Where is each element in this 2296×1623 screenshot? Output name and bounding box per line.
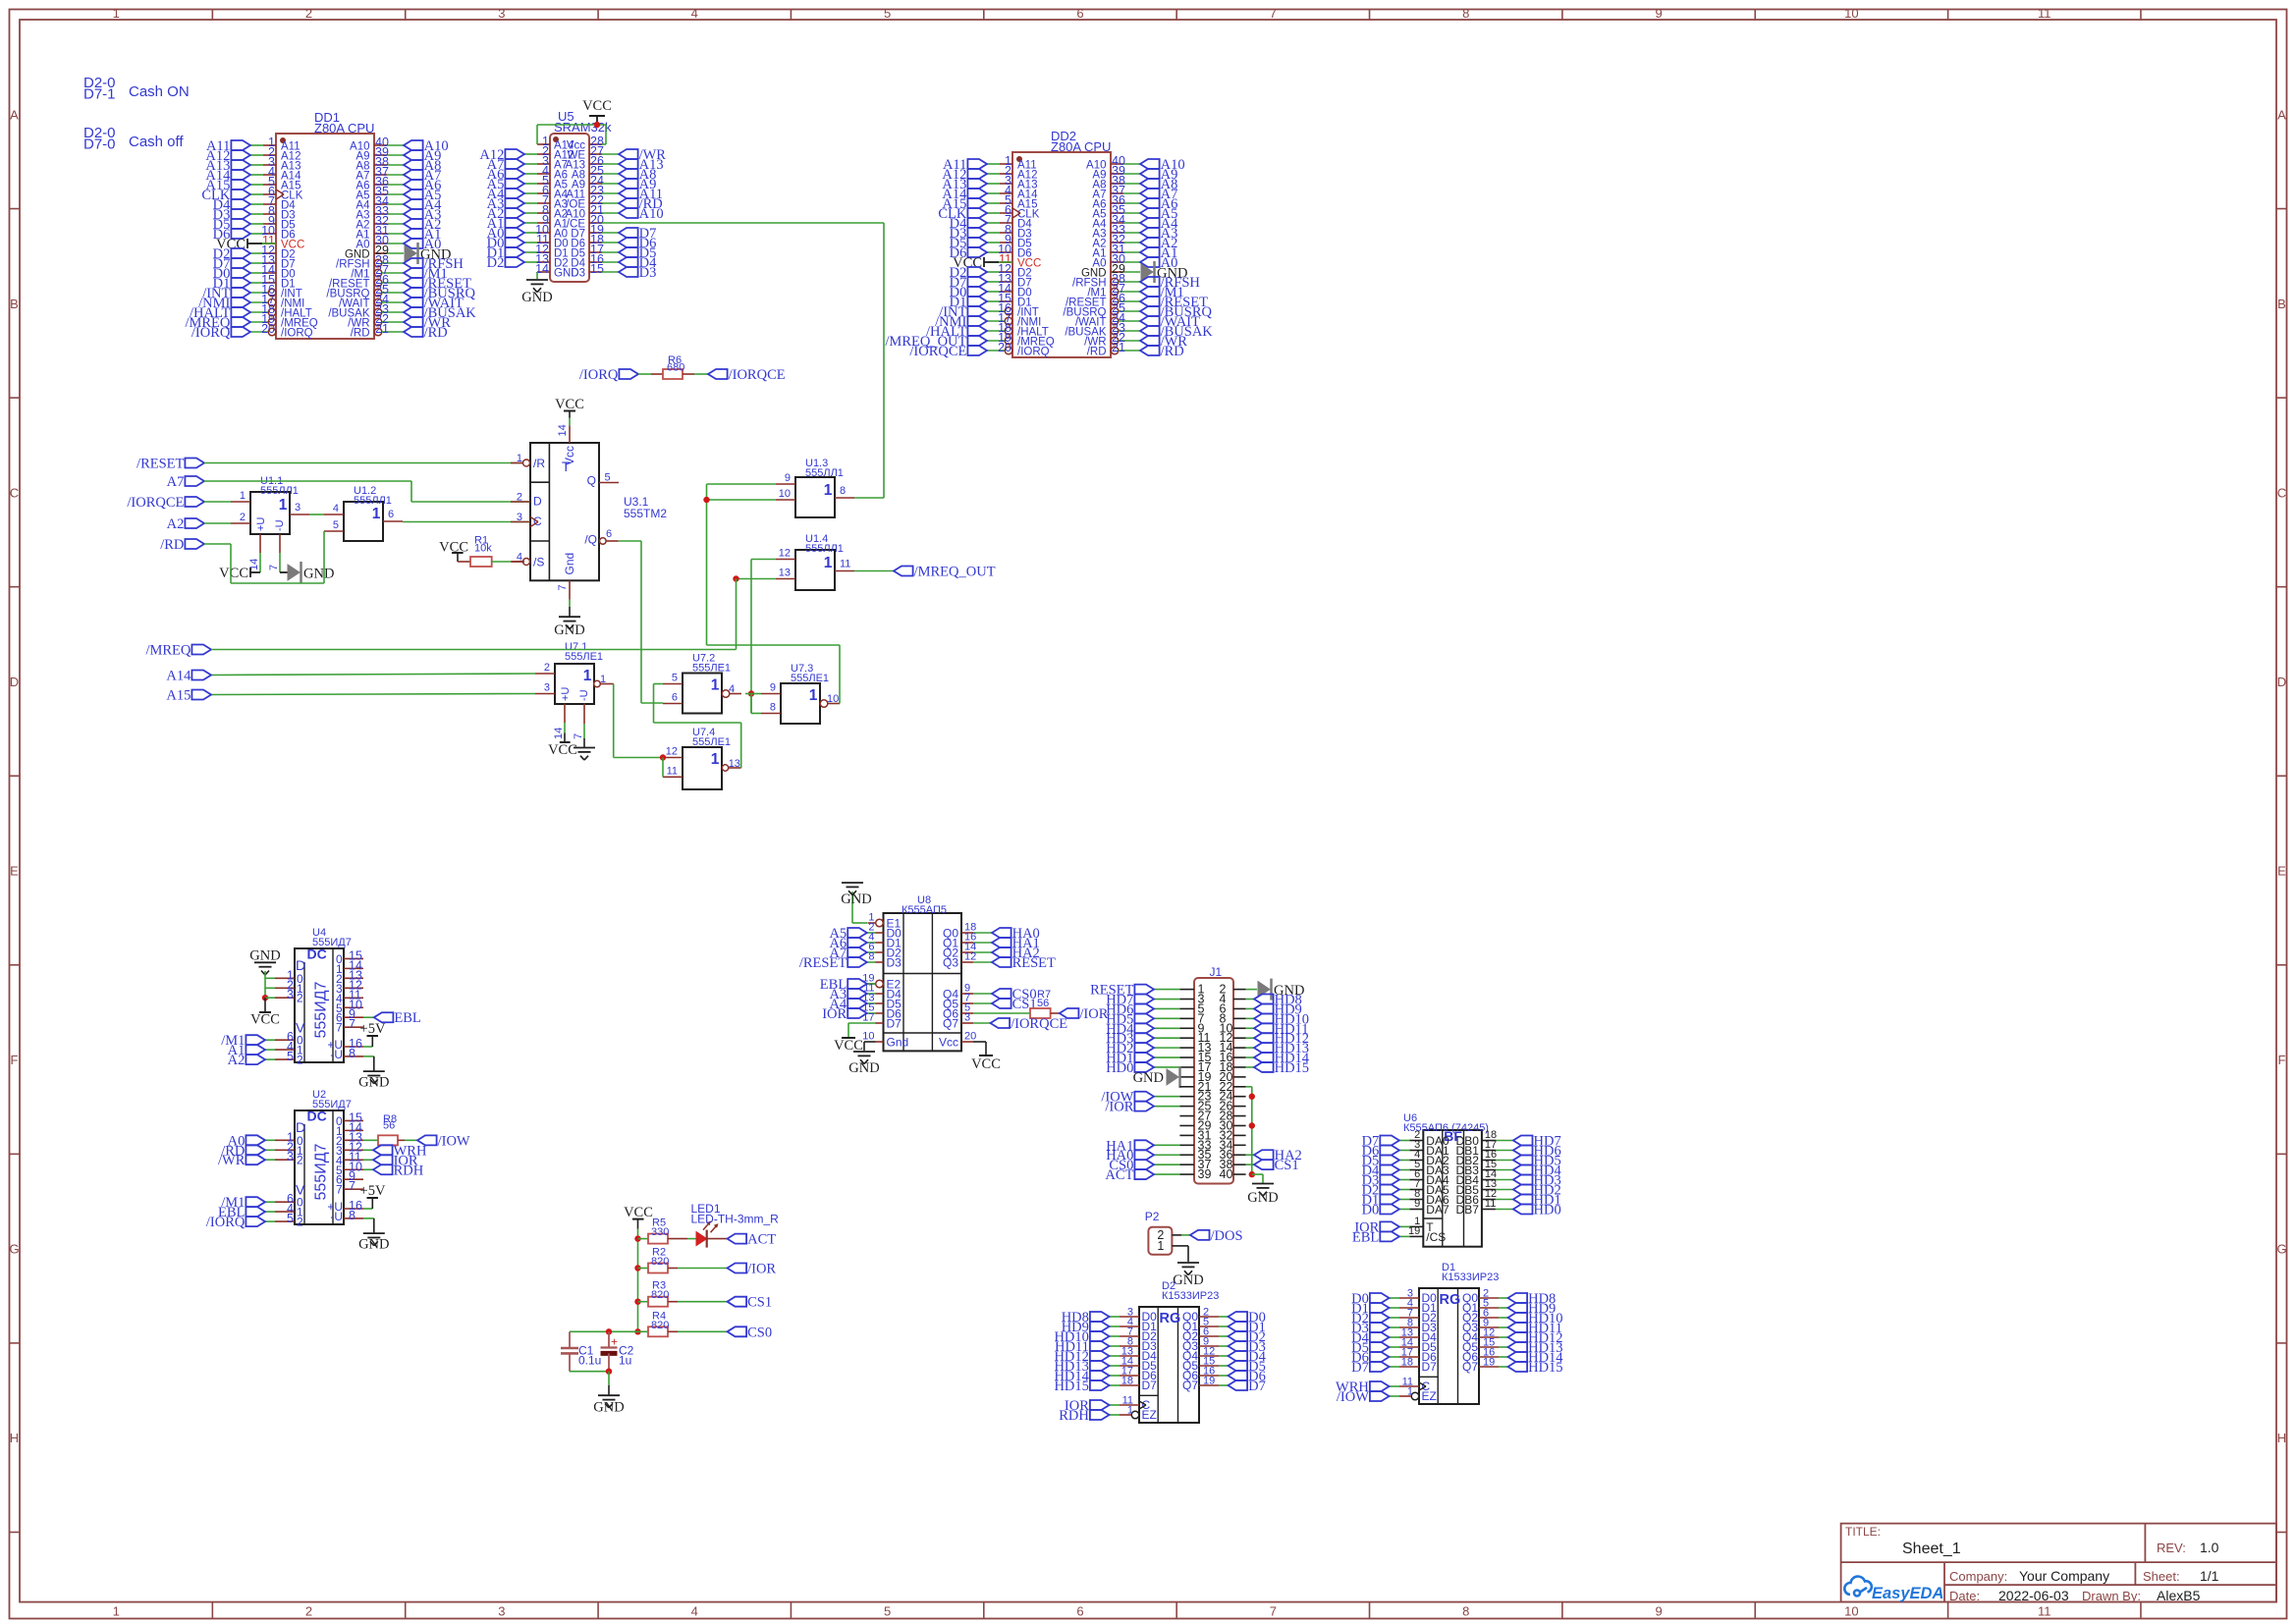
svg-text:B: B [10, 297, 19, 311]
svg-text:/RD: /RD [1161, 344, 1184, 359]
svg-text:555ЛЛ1: 555ЛЛ1 [805, 467, 844, 479]
svg-text:555ЛЛ1: 555ЛЛ1 [260, 485, 299, 497]
svg-text:EZ: EZ [1422, 1389, 1437, 1403]
svg-text:8: 8 [1462, 6, 1469, 21]
svg-text:555ЛЛ1: 555ЛЛ1 [805, 543, 844, 555]
svg-text:/R: /R [533, 457, 545, 470]
svg-text:39: 39 [1198, 1167, 1212, 1181]
svg-text:/RESET: /RESET [799, 955, 847, 971]
svg-text:DC: DC [307, 947, 327, 962]
svg-text:5: 5 [287, 1050, 294, 1063]
svg-text:4: 4 [729, 683, 735, 695]
svg-text:9: 9 [770, 682, 776, 694]
svg-text:К1533ИР23: К1533ИР23 [1442, 1271, 1499, 1283]
svg-text:1: 1 [583, 668, 592, 684]
svg-text:7: 7 [1270, 1604, 1277, 1619]
svg-text:5: 5 [605, 472, 611, 484]
svg-text:H: H [2277, 1431, 2286, 1445]
svg-text:1: 1 [824, 482, 833, 499]
svg-text:7: 7 [268, 565, 280, 570]
svg-text:E: E [2277, 864, 2286, 879]
svg-text:HD0: HD0 [1106, 1060, 1133, 1076]
svg-text:К1533ИР23: К1533ИР23 [1162, 1290, 1219, 1302]
svg-text:DB7: DB7 [1456, 1203, 1480, 1217]
svg-text:VCC: VCC [548, 742, 577, 758]
svg-text:CS1: CS1 [1275, 1158, 1299, 1173]
svg-text:10k: 10k [474, 542, 492, 554]
svg-text:HD0: HD0 [1534, 1203, 1561, 1218]
svg-text:A2: A2 [167, 516, 185, 532]
svg-text:10: 10 [1844, 6, 1858, 21]
svg-text:10: 10 [827, 693, 839, 705]
svg-text:ACT: ACT [747, 1232, 776, 1248]
svg-text:1: 1 [113, 1604, 120, 1619]
svg-text:13: 13 [729, 758, 740, 770]
svg-text:/IORQCE: /IORQCE [1011, 1016, 1067, 1032]
svg-text:56: 56 [1037, 998, 1049, 1009]
svg-text:Q: Q [587, 474, 596, 488]
svg-text:820: 820 [651, 1256, 669, 1268]
svg-text:8: 8 [1462, 1604, 1469, 1619]
svg-text:HD15: HD15 [1528, 1360, 1562, 1376]
svg-text:2: 2 [297, 1154, 303, 1167]
svg-text:D7: D7 [887, 1017, 902, 1031]
svg-text:10: 10 [779, 488, 791, 500]
svg-text:EasyEDA: EasyEDA [1872, 1585, 1943, 1602]
svg-text:0.1u: 0.1u [578, 1354, 601, 1368]
svg-text:11: 11 [2038, 6, 2051, 21]
svg-text:+5V: +5V [360, 1183, 386, 1199]
svg-text:2: 2 [544, 662, 550, 674]
svg-text:21: 21 [375, 322, 389, 336]
svg-text:+5V: +5V [360, 1021, 386, 1037]
svg-text:GND: GND [841, 892, 871, 907]
svg-text:/IORQ: /IORQ [206, 1215, 246, 1230]
svg-text:D0: D0 [1362, 1203, 1380, 1218]
svg-text:7: 7 [336, 1021, 343, 1035]
svg-text:2: 2 [305, 1604, 312, 1619]
svg-text:A15: A15 [166, 688, 191, 704]
svg-text:5: 5 [884, 1604, 891, 1619]
svg-text:10: 10 [1844, 1604, 1858, 1619]
svg-text:15: 15 [590, 262, 604, 276]
svg-text:/IORQ: /IORQ [579, 367, 619, 383]
svg-text:7: 7 [1270, 6, 1277, 21]
svg-text:Cash ON: Cash ON [129, 83, 190, 100]
svg-text:P2: P2 [1145, 1210, 1160, 1223]
svg-text:/Q: /Q [584, 533, 597, 547]
svg-text:3: 3 [287, 1150, 294, 1163]
svg-text:330: 330 [651, 1226, 669, 1238]
svg-text:1: 1 [1127, 1405, 1133, 1417]
svg-text:EBL: EBL [394, 1010, 420, 1026]
svg-text:6: 6 [388, 509, 394, 520]
svg-text:5: 5 [333, 519, 339, 531]
svg-text:/DOS: /DOS [1211, 1228, 1243, 1244]
svg-text:19: 19 [1408, 1225, 1420, 1237]
svg-text:D: D [296, 957, 305, 973]
svg-text:11: 11 [2038, 1604, 2051, 1619]
svg-text:C: C [2277, 485, 2286, 500]
svg-text:21: 21 [1112, 341, 1125, 354]
svg-text:7: 7 [573, 733, 584, 739]
svg-text:-U: -U [330, 1048, 343, 1061]
svg-text:2: 2 [297, 1216, 303, 1229]
svg-text:G: G [2276, 1242, 2286, 1257]
svg-text:VCC: VCC [219, 566, 248, 581]
svg-text:Sheet_1: Sheet_1 [1902, 1541, 1961, 1557]
svg-text:Q7: Q7 [1462, 1360, 1478, 1374]
svg-text:/MREQ_OUT: /MREQ_OUT [914, 565, 996, 580]
svg-text:/IORQCE: /IORQCE [909, 344, 966, 359]
svg-text:F: F [2278, 1053, 2286, 1067]
svg-text:-U: -U [330, 1210, 343, 1223]
svg-text:ACT: ACT [1105, 1167, 1133, 1183]
svg-text:Company:: Company: [1949, 1569, 2007, 1584]
svg-text:RESET: RESET [1012, 955, 1056, 971]
svg-text:555ЛЕ1: 555ЛЕ1 [565, 651, 603, 663]
svg-text:680: 680 [667, 362, 684, 374]
svg-text:7: 7 [349, 1179, 355, 1193]
svg-text:1: 1 [279, 497, 288, 514]
svg-text:4: 4 [691, 6, 698, 21]
svg-text:4: 4 [691, 1604, 698, 1619]
svg-text:Z80A CPU: Z80A CPU [1051, 139, 1111, 154]
svg-text:EZ: EZ [1142, 1408, 1157, 1422]
svg-text:G: G [9, 1242, 19, 1257]
svg-text:GND: GND [1173, 1272, 1203, 1288]
svg-text:1: 1 [711, 751, 720, 768]
svg-text:A14: A14 [166, 669, 191, 684]
svg-text:D7: D7 [1142, 1379, 1158, 1392]
svg-text:/IORQ: /IORQ [281, 328, 313, 340]
svg-text:Q7: Q7 [1182, 1379, 1198, 1392]
svg-text:2: 2 [297, 1054, 303, 1067]
svg-text:1: 1 [240, 490, 246, 502]
svg-text:GND: GND [521, 290, 552, 305]
svg-text:1.0: 1.0 [2200, 1540, 2219, 1555]
svg-text:D: D [2277, 675, 2286, 689]
svg-text:D: D [296, 1119, 305, 1135]
svg-text:8: 8 [840, 485, 846, 497]
svg-text:B: B [2277, 297, 2286, 311]
svg-text:+: + [611, 1335, 618, 1349]
svg-text:11: 11 [667, 765, 678, 777]
svg-text:Vcc: Vcc [563, 446, 576, 465]
svg-text:2: 2 [297, 992, 303, 1005]
svg-text:HD15: HD15 [1054, 1379, 1088, 1394]
svg-text:19: 19 [1203, 1376, 1215, 1387]
svg-text:1: 1 [113, 6, 120, 21]
svg-text:/MREQ: /MREQ [145, 643, 191, 659]
svg-text:19: 19 [1483, 1357, 1495, 1369]
svg-text:J1: J1 [1210, 965, 1223, 979]
svg-text:555ЛЕ1: 555ЛЕ1 [791, 673, 829, 684]
svg-text:CS1: CS1 [747, 1295, 772, 1311]
svg-text:8: 8 [349, 1209, 355, 1222]
svg-text:DC: DC [307, 1109, 327, 1124]
svg-text:-U: -U [274, 519, 286, 531]
svg-text:Gnd: Gnd [887, 1036, 909, 1050]
svg-text:Q7: Q7 [943, 1017, 958, 1031]
svg-text:RDH: RDH [394, 1163, 424, 1178]
svg-text:/IOR: /IOR [747, 1262, 776, 1277]
svg-text:555ИД7: 555ИД7 [313, 1143, 330, 1200]
svg-text:6: 6 [1076, 6, 1083, 21]
svg-text:2: 2 [240, 512, 246, 523]
svg-text:A10: A10 [639, 206, 664, 222]
svg-text:EBL: EBL [1352, 1229, 1379, 1245]
svg-text:Cash off: Cash off [129, 134, 184, 150]
svg-text:DA7: DA7 [1426, 1203, 1449, 1217]
svg-text:5: 5 [884, 6, 891, 21]
svg-text:555ЛЕ1: 555ЛЕ1 [692, 663, 731, 675]
svg-text:11: 11 [1485, 1198, 1496, 1210]
svg-text:1: 1 [600, 674, 606, 685]
svg-text:/RESET: /RESET [137, 457, 184, 472]
svg-text:1: 1 [372, 506, 381, 522]
svg-text:1u: 1u [619, 1354, 631, 1368]
svg-text:6: 6 [672, 692, 678, 704]
svg-text:GND: GND [358, 1074, 389, 1090]
svg-text:7: 7 [336, 1183, 343, 1197]
svg-text:GND: GND [1133, 1070, 1164, 1086]
svg-text:9: 9 [1655, 6, 1662, 21]
svg-text:18: 18 [1121, 1376, 1133, 1387]
svg-text:D2: D2 [487, 255, 505, 271]
svg-text:IOR: IOR [822, 1006, 847, 1022]
svg-text:/IOW: /IOW [438, 1133, 470, 1149]
svg-text:14: 14 [553, 728, 565, 739]
svg-text:F: F [11, 1053, 19, 1067]
svg-text:3: 3 [498, 1604, 505, 1619]
svg-text:GND: GND [303, 567, 334, 582]
svg-text:3: 3 [544, 682, 550, 694]
svg-text:GND: GND [358, 1236, 389, 1252]
svg-text:D3: D3 [887, 956, 902, 970]
svg-text:5: 5 [672, 673, 678, 684]
svg-text:1/1: 1/1 [2200, 1568, 2219, 1584]
svg-text:555TM2: 555TM2 [624, 507, 667, 520]
svg-text:14: 14 [557, 424, 569, 436]
svg-text:A: A [10, 107, 19, 122]
svg-text:D3: D3 [639, 265, 657, 281]
svg-text:20: 20 [964, 1031, 976, 1043]
svg-text:GND: GND [554, 622, 584, 638]
svg-text:40: 40 [1220, 1167, 1233, 1181]
svg-text:A2: A2 [228, 1053, 246, 1068]
svg-text:1: 1 [809, 687, 818, 704]
svg-text:13: 13 [779, 568, 791, 579]
svg-text:GND: GND [249, 948, 280, 964]
svg-text:GND: GND [1247, 1190, 1278, 1206]
svg-text:6: 6 [606, 528, 612, 540]
svg-text:/RD: /RD [351, 328, 370, 340]
svg-text:SRAM32k: SRAM32k [554, 120, 612, 135]
svg-text:H: H [10, 1431, 19, 1445]
svg-text:A: A [2277, 107, 2286, 122]
svg-text:6: 6 [1076, 1604, 1083, 1619]
svg-text:1: 1 [711, 677, 720, 694]
svg-text:Your Company: Your Company [2019, 1568, 2109, 1584]
svg-text:A7: A7 [167, 474, 185, 490]
svg-text:7: 7 [349, 1017, 355, 1031]
svg-text:20: 20 [998, 341, 1011, 354]
svg-text:/CS: /CS [1426, 1230, 1446, 1244]
svg-text:/RD: /RD [424, 325, 448, 341]
svg-text:10: 10 [862, 1031, 874, 1043]
svg-text:1: 1 [1157, 1239, 1164, 1253]
svg-text:D3: D3 [571, 268, 585, 280]
svg-text:820: 820 [651, 1289, 669, 1301]
svg-text:D: D [533, 495, 542, 509]
svg-text:12: 12 [779, 548, 791, 560]
svg-text:VCC: VCC [582, 98, 612, 114]
svg-text:CS0: CS0 [747, 1325, 772, 1340]
svg-text:VCC: VCC [250, 1012, 280, 1028]
svg-text:E: E [10, 864, 19, 879]
svg-text:+U: +U [560, 687, 572, 701]
svg-text:5: 5 [287, 1212, 294, 1225]
svg-text:11: 11 [840, 559, 850, 570]
svg-text:D7: D7 [1248, 1379, 1266, 1394]
svg-text:LED-TH-3mm_R: LED-TH-3mm_R [691, 1213, 780, 1226]
svg-text:9: 9 [785, 472, 791, 484]
svg-text:Vcc: Vcc [939, 1036, 958, 1050]
svg-text:REV:: REV: [2157, 1541, 2186, 1555]
svg-text:Z80A CPU: Z80A CPU [314, 121, 374, 135]
svg-text:C: C [10, 485, 19, 500]
svg-text:8: 8 [868, 951, 874, 963]
svg-text:3: 3 [287, 988, 294, 1001]
svg-text:HD15: HD15 [1275, 1060, 1309, 1076]
svg-text:RG: RG [1160, 1311, 1181, 1326]
svg-text:/S: /S [533, 556, 544, 569]
svg-text:2022-06-03: 2022-06-03 [1998, 1588, 2069, 1603]
svg-text:-U: -U [578, 689, 590, 701]
svg-text:RG: RG [1440, 1292, 1461, 1308]
svg-text:GND: GND [848, 1060, 879, 1076]
svg-text:8: 8 [349, 1047, 355, 1060]
svg-text:18: 18 [1401, 1357, 1413, 1369]
svg-text:Drawn By:: Drawn By: [2082, 1589, 2141, 1603]
svg-text:3: 3 [964, 1012, 970, 1024]
svg-text:1: 1 [517, 453, 522, 464]
svg-text:/IORQ: /IORQ [1017, 347, 1050, 358]
svg-text:VCC: VCC [971, 1056, 1001, 1072]
svg-text:TITLE:: TITLE: [1845, 1525, 1881, 1539]
svg-text:555ЛЕ1: 555ЛЕ1 [692, 736, 731, 748]
svg-text:Sheet:: Sheet: [2143, 1569, 2180, 1584]
svg-text:555ИД7: 555ИД7 [313, 981, 330, 1038]
svg-text:1: 1 [1407, 1386, 1413, 1398]
svg-text:D7: D7 [1422, 1360, 1438, 1374]
svg-text:/IORQCE: /IORQCE [127, 495, 184, 511]
svg-text:2: 2 [517, 492, 522, 504]
svg-text:/IOR: /IOR [1105, 1100, 1133, 1115]
svg-text:/IORQ: /IORQ [191, 325, 231, 341]
svg-text:12: 12 [666, 746, 678, 758]
svg-text:9: 9 [1414, 1198, 1420, 1210]
svg-text:820: 820 [651, 1320, 669, 1331]
svg-text:+U: +U [255, 517, 267, 531]
svg-text:4: 4 [333, 503, 339, 514]
svg-text:Gnd: Gnd [563, 553, 576, 575]
svg-text:/IOR: /IOR [1079, 1006, 1108, 1022]
svg-text:D7-1: D7-1 [83, 86, 116, 103]
svg-text:D: D [10, 675, 19, 689]
svg-text:/RD: /RD [1087, 347, 1107, 358]
svg-text:/RD: /RD [160, 537, 184, 553]
svg-text:8: 8 [770, 702, 776, 714]
svg-text:3: 3 [517, 512, 522, 523]
svg-text:D7-0: D7-0 [83, 136, 116, 153]
svg-text:RDH: RDH [1059, 1408, 1089, 1424]
svg-text:20: 20 [261, 322, 275, 336]
svg-text:1: 1 [824, 555, 833, 571]
svg-text:Date:: Date: [1949, 1589, 1980, 1603]
svg-text:2: 2 [305, 6, 312, 21]
svg-text:/WR: /WR [218, 1153, 246, 1168]
svg-text:GND: GND [593, 1400, 624, 1416]
svg-text:/IORQCE: /IORQCE [729, 367, 786, 383]
svg-text:7: 7 [557, 584, 569, 590]
svg-text:3: 3 [498, 6, 505, 21]
svg-text:3: 3 [295, 502, 301, 514]
svg-text:Q3: Q3 [943, 956, 958, 970]
svg-text:9: 9 [1655, 1604, 1662, 1619]
svg-text:56: 56 [383, 1120, 395, 1132]
svg-text:17: 17 [862, 1012, 874, 1024]
svg-text:AlexB5: AlexB5 [2157, 1588, 2201, 1603]
svg-text:D7: D7 [1351, 1360, 1369, 1376]
svg-text:К555АП5: К555АП5 [902, 904, 947, 916]
svg-text:12: 12 [964, 951, 976, 963]
svg-text:/IOW: /IOW [1337, 1389, 1369, 1405]
